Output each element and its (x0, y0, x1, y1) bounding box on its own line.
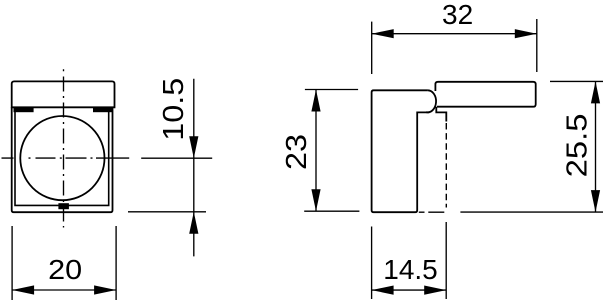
hidden edge vertical (dashed) (445, 123, 447, 208)
dimension 20: extension line right (115, 226, 117, 300)
svg-text:10.5: 10.5 (158, 78, 190, 141)
dimension 32: extension line left (371, 22, 373, 74)
dimension 32: arrow right (515, 29, 537, 38)
dimension 25.5: extension line top (550, 80, 603, 82)
dimension 20: extension line left (11, 226, 13, 300)
dimension 23: extension line top (305, 89, 358, 91)
dimension 20: dimension line (12, 289, 116, 291)
dimension 10.5: top extension line (from center line) (141, 157, 212, 159)
dimension 14.5: extension line right (445, 222, 447, 299)
clip mark right (filled) (93, 108, 113, 112)
dimension 10.5: arrow down (above, pointing to center line) (189, 136, 198, 158)
dimension 14.5: extension line left (371, 227, 373, 300)
svg-text:14.5: 14.5 (383, 254, 438, 285)
dimension 25.5: arrow up (591, 81, 600, 103)
body vertical plate outline (372, 90, 430, 212)
svg-text:23: 23 (281, 134, 313, 170)
hinge barrel arc (426, 90, 436, 112)
body inner opening rectangle (15, 108, 109, 205)
dimension 14.5: arrow left (372, 286, 394, 295)
dimension 14.5: dimension line (372, 289, 447, 291)
centerline horizontal (2, 157, 130, 159)
bottom latch mark (filled) (58, 203, 69, 209)
dimension 10.5: arrow up (below, pointing to bottom line) (189, 212, 198, 234)
clip mark left (filled) (14, 108, 34, 112)
dimension 10.5: bottom extension line (128, 211, 206, 213)
centerline vertical (63, 69, 65, 227)
dimension 32: extension line right (536, 19, 538, 72)
dimension 23: arrow up (311, 90, 320, 112)
svg-text:25.5: 25.5 (561, 113, 593, 177)
svg-text:32: 32 (442, 0, 473, 30)
hidden edge bottom (dashed) (419, 211, 445, 213)
cap (top rectangle) (12, 81, 115, 107)
dimension 25.5: extension line bottom (460, 211, 603, 213)
dimension 32: arrow left (372, 29, 394, 38)
svg-text:20: 20 (48, 254, 82, 285)
step under arm (436, 107, 446, 122)
arm (horizontal plate) (435, 82, 535, 107)
body outer rectangle (12, 107, 113, 212)
dimension 14.5: arrow right (424, 286, 446, 295)
dimension 10.5: dimension line (193, 79, 195, 257)
dimension 20: arrow right (94, 285, 116, 294)
dimension 25.5: dimension line (595, 81, 597, 212)
dimension 23: dimension line (315, 90, 317, 212)
lens circle (20, 116, 104, 200)
dimension 23: arrow down (311, 189, 320, 211)
dimension 23: extension line bottom (304, 210, 359, 212)
dimension 25.5: arrow down (591, 190, 600, 212)
dimension 32: dimension line (372, 33, 537, 35)
dimension 20: arrow left (12, 285, 34, 294)
